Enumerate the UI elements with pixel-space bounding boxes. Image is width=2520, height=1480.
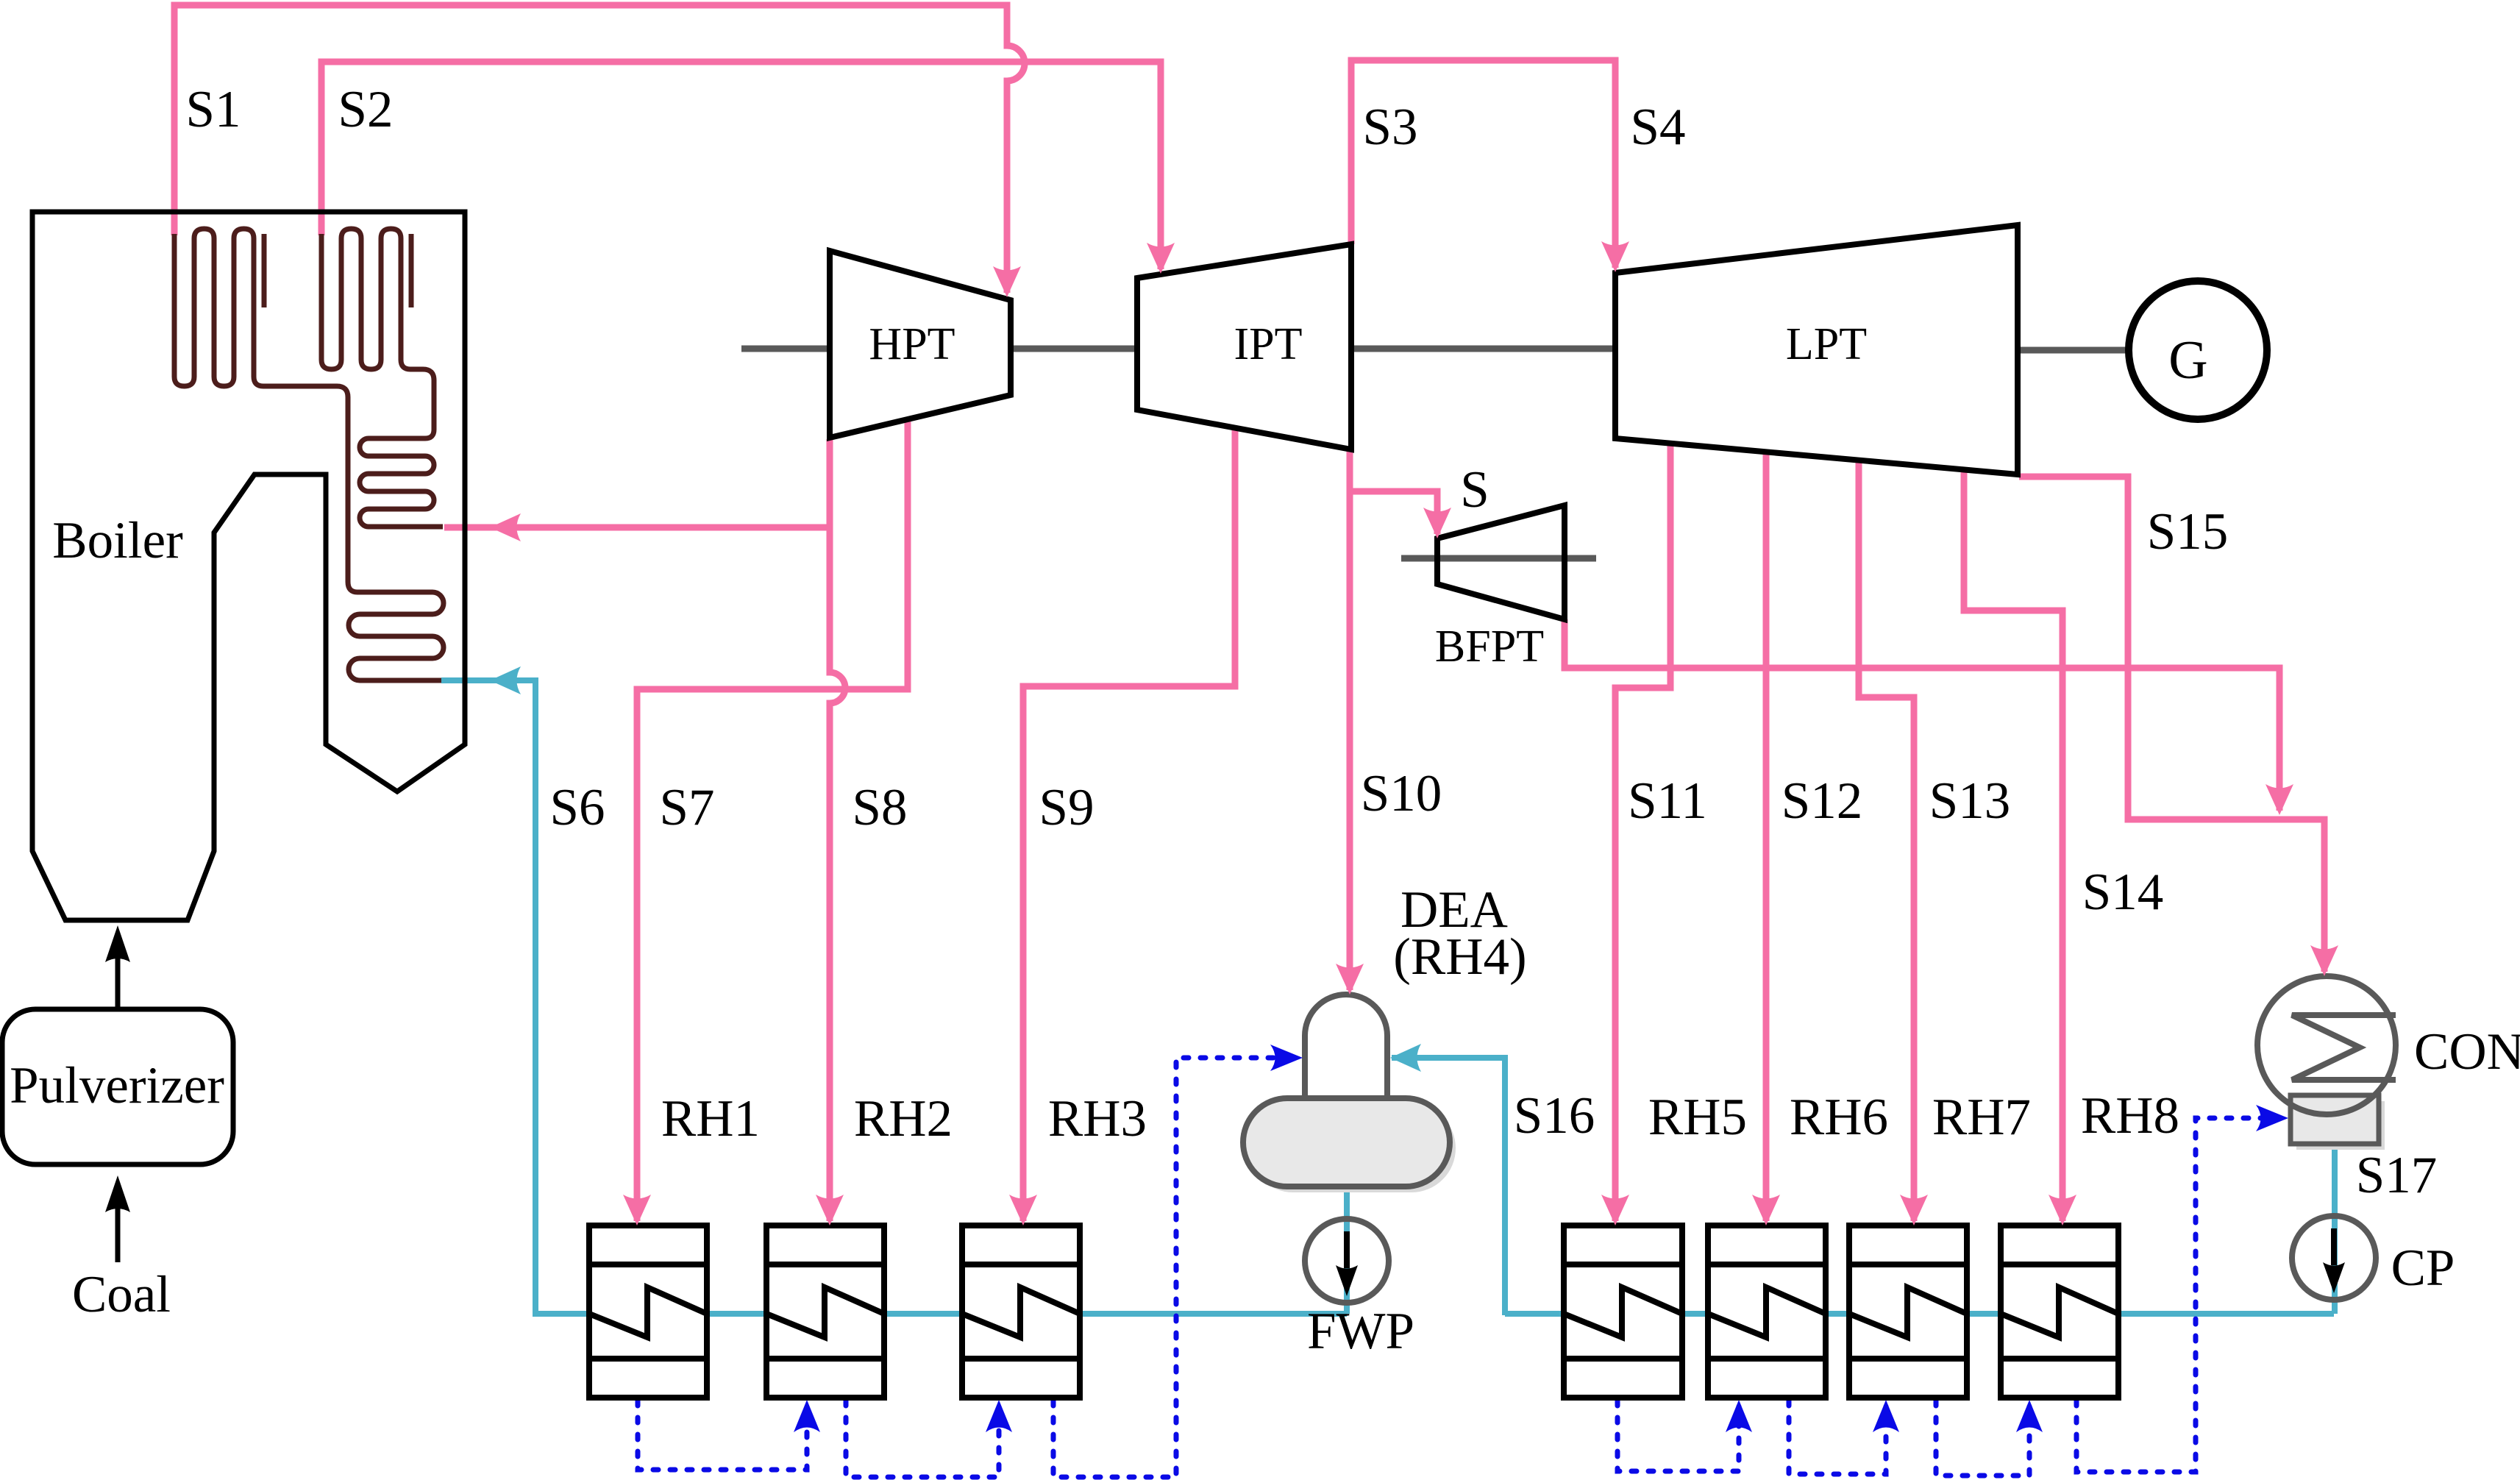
wire feedwater main line RH1-RH3 to FWP — [535, 1311, 1347, 1317]
wire S14 extraction to RH8 — [1964, 469, 2062, 1221]
wire drain RH6 to RH7 — [1789, 1401, 1886, 1474]
deaerator DEA tank — [1243, 1098, 1450, 1187]
arrow S1 into HPT — [993, 266, 1021, 297]
wire S16 riser to DEA — [1392, 1058, 1505, 1315]
svg-text:Boiler: Boiler — [52, 512, 183, 569]
wire drain RH2 to RH3 — [846, 1401, 999, 1477]
boiler superheater coil 2 — [321, 229, 434, 430]
svg-text:BFPT: BFPT — [1435, 622, 1544, 672]
svg-text:Pulverizer: Pulverizer — [10, 1057, 224, 1114]
arrow drain into RH2 — [794, 1400, 820, 1432]
svg-text:CP: CP — [2391, 1239, 2455, 1297]
arrow S12 into RH6 — [1752, 1195, 1780, 1225]
svg-text:S12: S12 — [1782, 772, 1863, 830]
svg-text:S14: S14 — [2082, 864, 2164, 921]
svg-text:S6: S6 — [550, 779, 605, 836]
svg-text:S1: S1 — [186, 81, 241, 138]
wire shaft left of HPT — [741, 346, 830, 352]
svg-text:S7: S7 — [660, 779, 715, 836]
svg-text:LPT: LPT — [1786, 319, 1867, 369]
coal feed arrow pulverizer to boiler — [105, 925, 130, 1011]
heater RH5 — [1564, 1225, 1682, 1398]
pump FWP — [1305, 1219, 1389, 1303]
wire S1 main steam boiler to HPT — [174, 5, 1025, 293]
wire shaft IPT to LPT — [1351, 346, 1615, 352]
wire shaft HPT to IPT — [1011, 346, 1137, 352]
wire drain RH5 to RH6 — [1617, 1401, 1739, 1471]
wire S steam to BFPT — [1350, 491, 1437, 534]
wire S3-S4 IPT exhaust to LPT — [1351, 60, 1615, 268]
svg-text:(RH4): (RH4) — [1393, 928, 1526, 986]
wire S7 extraction to RH1 — [637, 419, 908, 1221]
turbine LPT — [1615, 225, 2018, 474]
coal input arrow — [105, 1175, 130, 1262]
heater RH1 — [589, 1225, 707, 1398]
svg-text:RH5: RH5 — [1648, 1089, 1747, 1146]
wire S2 hot reheat boiler to IPT — [321, 62, 1161, 269]
wire drain RH1 to RH2 — [638, 1401, 807, 1470]
wire S15 LPT exhaust to condenser — [2019, 477, 2324, 972]
arrow S9 into RH3 — [1009, 1195, 1037, 1225]
heater RH7 — [1849, 1225, 1967, 1398]
generator G — [2129, 281, 2267, 419]
svg-text:S9: S9 — [1039, 779, 1095, 836]
heater RH2 — [766, 1225, 884, 1398]
arrow S10 into DEA — [1336, 964, 1364, 995]
svg-text:HPT: HPT — [869, 319, 955, 369]
wire drain RH8 to condenser hotwell — [2076, 1118, 2280, 1472]
heater RH8 — [2001, 1225, 2118, 1398]
boiler reheater bank — [360, 430, 443, 527]
arrow drain into RH3 — [986, 1400, 1012, 1432]
svg-text:G: G — [2168, 330, 2207, 391]
svg-text:RH2: RH2 — [854, 1090, 953, 1148]
arrow S2 into IPT — [1147, 243, 1175, 274]
condenser hotwell — [2291, 1095, 2379, 1144]
svg-text:S15: S15 — [2147, 503, 2229, 561]
svg-text:S10: S10 — [1361, 765, 1442, 822]
heater RH6 — [1708, 1225, 1826, 1398]
wire S6 feedwater from economizer to RH1 — [441, 680, 592, 1314]
condenser hotwell shadow — [2296, 1101, 2385, 1150]
heater RH3 — [962, 1225, 1080, 1398]
wire S17 condensate through CP — [2332, 1142, 2338, 1314]
svg-text:RH7: RH7 — [1932, 1089, 2031, 1146]
arrow S11 into RH5 — [1601, 1195, 1629, 1225]
wire S9 extraction to RH3 — [1023, 428, 1235, 1221]
svg-text:S13: S13 — [1929, 772, 2011, 830]
turbine BFPT — [1437, 505, 1565, 619]
wire drain RH3 to DEA — [1053, 1058, 1296, 1477]
wire S12 extraction to RH6 — [1763, 452, 1770, 1221]
arrow S15 into condenser — [2310, 945, 2338, 976]
svg-text:CON: CON — [2414, 1023, 2520, 1081]
arrow S7 into RH1 — [623, 1195, 651, 1225]
wire feedwater main line RH5-RH8 to CP — [1505, 1311, 2334, 1317]
boiler outline — [32, 212, 465, 920]
svg-text:S4: S4 — [1631, 99, 1686, 156]
svg-text:IPT: IPT — [1234, 319, 1303, 369]
wire S10 extraction to DEA — [1347, 449, 1353, 990]
arrow drain into RH7 — [1873, 1400, 1899, 1432]
condenser CON — [2257, 976, 2396, 1114]
arrow drain into DEA — [1270, 1045, 1303, 1071]
deaerator DEA tank shadow — [1249, 1104, 1456, 1192]
arrow S into BFPT — [1423, 508, 1451, 538]
arrow S16 into DEA — [1390, 1044, 1421, 1072]
boiler superheater coil 1 stub — [262, 234, 267, 307]
boiler superheater coil 1 — [174, 229, 348, 582]
pulverizer — [2, 1009, 233, 1164]
boiler economizer bank — [348, 582, 444, 680]
arrow S6 into boiler — [490, 666, 521, 694]
svg-text:S2: S2 — [338, 81, 394, 138]
svg-text:RH8: RH8 — [2081, 1087, 2179, 1145]
wire drain RH7 to RH8 — [1936, 1401, 2029, 1476]
turbine IPT — [1137, 244, 1351, 449]
arrow cold reheat into boiler — [490, 513, 521, 541]
wire S11 extraction to RH5 — [1615, 444, 1670, 1221]
svg-text:S11: S11 — [1628, 772, 1707, 830]
svg-text:S: S — [1460, 461, 1489, 519]
wire S8 extraction to RH2 — [830, 439, 845, 1221]
svg-text:Coal: Coal — [72, 1266, 171, 1323]
wire shaft of BFPT — [1401, 555, 1596, 562]
svg-text:RH6: RH6 — [1790, 1089, 1888, 1146]
pump CP — [2292, 1216, 2376, 1300]
arrow S4 into LPT — [1601, 241, 1629, 272]
arrow drain into RH6 — [1726, 1400, 1752, 1432]
arrow S14 into RH8 — [2049, 1195, 2076, 1225]
wire cold reheat HPT to boiler — [444, 524, 830, 531]
svg-text:S16: S16 — [1514, 1087, 1595, 1145]
svg-text:FWP: FWP — [1307, 1303, 1414, 1360]
svg-text:S3: S3 — [1363, 99, 1418, 156]
wire BFPT exhaust to condenser — [1565, 619, 2279, 811]
arrow S8 into RH2 — [816, 1195, 844, 1225]
svg-text:S17: S17 — [2356, 1147, 2438, 1204]
deaerator DEA dome — [1305, 995, 1387, 1103]
wire S13 extraction to RH7 — [1859, 460, 1914, 1221]
arrow S13 into RH7 — [1900, 1195, 1928, 1225]
svg-text:RH3: RH3 — [1048, 1090, 1147, 1148]
svg-text:RH1: RH1 — [661, 1090, 760, 1148]
arrow drain into hotwell — [2256, 1105, 2288, 1131]
turbine HPT — [830, 251, 1011, 438]
arrow drain into RH8 — [2016, 1400, 2043, 1432]
boiler superheater coil 2 stub — [409, 234, 414, 307]
svg-text:S8: S8 — [853, 779, 908, 836]
wire DEA outlet through FWP — [1344, 1187, 1350, 1314]
wire shaft LPT to generator — [2018, 347, 2129, 354]
arrow BFPT exhaust junction — [2265, 784, 2293, 815]
